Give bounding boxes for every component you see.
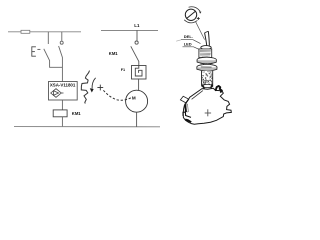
thermal overload F1 box: [132, 66, 147, 80]
wire: bottom rail: [14, 126, 160, 128]
mechanical coupling dashed line: [103, 90, 131, 100]
sensor hex nut 1: [197, 57, 216, 65]
cam wheel center cross: [205, 109, 211, 116]
adjustment dial circle: [185, 9, 196, 20]
DEL underline leader: [176, 40, 181, 41]
rotation arrow arc: [92, 78, 96, 89]
contact S1 pole B: terminal circle: [60, 41, 63, 44]
wire: coil to bottom rail: [61, 117, 63, 127]
bent tab A (upper left, white face): [180, 96, 188, 103]
svg-text:LED: LED: [184, 41, 192, 46]
fuse F on left rail: [21, 30, 30, 33]
sensor threaded barrel: [202, 71, 213, 85]
LED underline leader: [183, 47, 200, 50]
wire: left top rail: [8, 31, 81, 33]
sensor cable-gland shoulder: [201, 46, 211, 50]
dark wedge lower-left: [185, 119, 192, 123]
dial lower turn arc: [184, 20, 197, 23]
dial leader line: [195, 21, 204, 39]
dial screwdriver slot: [186, 11, 195, 19]
motor M circle: [126, 90, 148, 112]
boss shading left: [202, 85, 204, 89]
contact S1 pole A: fixed terminal drop: [47, 32, 49, 44]
proximity sensor diamond symbol: [51, 89, 64, 98]
wire: pole B down to sensor box: [61, 57, 63, 81]
svg-text:F1: F1: [121, 68, 125, 72]
contact S1 pole A: moving contact diagonal: [44, 49, 50, 61]
overload element squiggle: [135, 66, 142, 77]
bent tab L-foot: [183, 112, 191, 117]
cam wheel outline: [183, 88, 231, 124]
standing tab dark bar: [184, 104, 187, 113]
contact KM1: fixed terminal drop: [136, 30, 138, 40]
dial arrowhead: [199, 11, 201, 14]
contact S1 pole B: fixed terminal drop: [61, 32, 63, 41]
svg-text:KM1: KM1: [109, 51, 119, 56]
proximity sensor box XSA-V11801: [49, 82, 78, 101]
contact KM1: terminal circle: [135, 41, 138, 44]
sensor cable: [205, 33, 207, 46]
wire: motor to bottom rail: [136, 112, 138, 127]
svg-text:DEL.: DEL.: [184, 34, 193, 39]
contact S1 pole B: moving contact diagonal: [59, 46, 63, 57]
contact KM1: moving contact diagonal: [131, 46, 139, 61]
dial turn arrow arc: [189, 7, 201, 12]
wheel rim inner line: [192, 91, 203, 100]
sensor hex nut 2: [197, 64, 217, 72]
relay coil KM1: [53, 110, 67, 117]
standing tab white sliver: [186, 104, 188, 112]
svg-text:XSA-V11801: XSA-V11801: [50, 83, 76, 88]
wire: right top rail L1: [101, 29, 158, 31]
limit switch actuator (E symbol): [32, 46, 36, 56]
wire: pole A bottom: [50, 60, 63, 67]
body print speckle: [200, 50, 211, 57]
svg-text:KM1: KM1: [72, 111, 82, 116]
target cross mark: [97, 85, 103, 91]
dark tab upper right: [216, 86, 222, 92]
wire: box to coil: [61, 100, 63, 110]
rotation arrowhead: [90, 88, 94, 92]
mechanical link dash: [37, 48, 40, 50]
wire: contact to overload: [138, 61, 140, 65]
separation zigzag: [81, 71, 89, 104]
thread stipple: [202, 71, 213, 85]
boss shading right: [211, 84, 213, 88]
svg-text:L1: L1: [134, 23, 140, 28]
svg-text:M: M: [132, 96, 136, 101]
wire: overload to motor: [138, 79, 140, 91]
sensor body: [199, 49, 212, 58]
cam wheel boss under sensor: [202, 85, 213, 88]
dial plus mark: [197, 17, 200, 20]
tab A dark edge: [186, 99, 189, 103]
